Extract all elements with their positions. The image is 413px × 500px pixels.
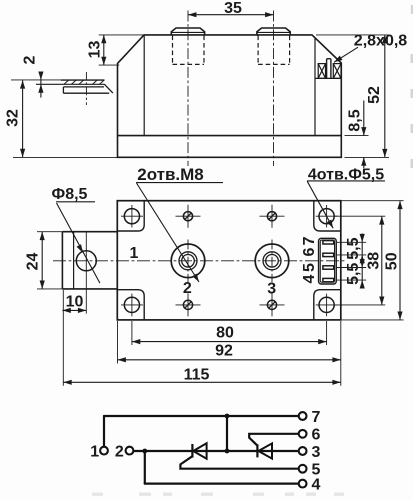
svg-text:2отв.М8: 2отв.М8 — [137, 165, 204, 184]
scan ghost marks right edge — [411, 5, 413, 168]
pin 6 — [323, 253, 334, 256]
tab hole centerline — [85, 72, 87, 105]
left flat tab top view — [62, 232, 117, 289]
dim 50 — [341, 201, 404, 320]
svg-text:3: 3 — [312, 444, 321, 461]
terminal 4 circle — [299, 480, 307, 488]
wire: gate lead VS1 to terminal 5 — [180, 456, 298, 469]
hidden M8 hole 2 (dashed) — [258, 36, 290, 65]
wire: node A riser — [226, 416, 228, 451]
mounting hole BL — [121, 294, 143, 317]
centerline terminal 2 — [273, 11, 275, 167]
terminal 6 circle — [299, 430, 307, 438]
dim 80 — [132, 321, 327, 345]
scan ghost marks bottom — [92, 493, 344, 496]
control connector block — [319, 238, 337, 284]
svg-text:92: 92 — [215, 343, 233, 360]
junction node A bottom — [225, 449, 230, 454]
terminal 5 circle — [299, 465, 307, 473]
dim 8,5 — [345, 101, 369, 169]
pin 5 — [323, 266, 334, 269]
tab bend diagonal — [104, 84, 113, 93]
thyristor VS1 cathode bar — [191, 444, 193, 458]
svg-text:7: 7 — [312, 409, 321, 426]
svg-text:5,5: 5,5 — [345, 237, 362, 259]
svg-text:2: 2 — [115, 443, 124, 460]
corner tab bottom-left — [117, 290, 144, 320]
svg-text:Ф8,5: Ф8,5 — [52, 186, 88, 203]
svg-text:2: 2 — [183, 280, 192, 297]
pin 7 — [323, 241, 334, 244]
svg-text:3: 3 — [267, 281, 276, 298]
M8 terminal hole 2 — [171, 240, 205, 283]
dim 13 — [99, 35, 144, 65]
module body outline side view — [118, 35, 342, 157]
wire: bottom bus to terminal 4 — [145, 483, 299, 485]
gate pin hole D — [260, 293, 285, 316]
dim 2 — [40, 72, 42, 98]
wire: terminal 1 riser — [103, 416, 105, 447]
terminal 1 circle — [100, 447, 108, 455]
svg-text:32: 32 — [5, 109, 22, 127]
svg-text:5: 5 — [301, 263, 318, 272]
fast-on connector 2.8x0.8 — [318, 59, 341, 79]
terminal bump 1 — [171, 28, 204, 35]
svg-text:1: 1 — [130, 245, 139, 262]
corner tab bottom-right — [314, 290, 341, 320]
mounting hole TL — [121, 205, 143, 228]
dim 32 — [13, 80, 118, 157]
dim 52 — [316, 35, 389, 157]
thyristor VS2 cathode bar — [256, 444, 258, 457]
body rectangle — [117, 201, 340, 320]
dim 115 — [63, 290, 341, 386]
svg-text:35: 35 — [224, 0, 242, 17]
wire: drop from 2 to bottom bus — [144, 451, 146, 484]
junction node A top — [225, 414, 230, 419]
hole vertical centerline / ext — [85, 232, 87, 314]
terminal 7 circle — [299, 412, 307, 420]
svg-text:80: 80 — [216, 324, 234, 341]
thyristor VS1 triangle — [193, 443, 206, 459]
terminal 3 circle — [299, 447, 307, 455]
svg-text:38: 38 — [366, 252, 383, 270]
gate pin hole A — [176, 205, 201, 228]
dim 35 — [188, 14, 274, 16]
svg-text:1: 1 — [90, 443, 99, 460]
centerline terminal 1 — [187, 11, 189, 167]
svg-text:115: 115 — [184, 366, 210, 383]
svg-text:24: 24 — [25, 253, 42, 271]
junction at terminal 2 branch — [142, 449, 147, 454]
dim 38 — [334, 216, 386, 305]
mounting hole TR — [316, 205, 338, 228]
hidden M8 hole 1 (dashed) — [173, 36, 290, 65]
thyristor VS2 triangle — [258, 443, 272, 458]
svg-text:7: 7 — [301, 236, 318, 245]
svg-text:52: 52 — [366, 86, 383, 104]
svg-text:4: 4 — [312, 477, 321, 494]
terminal 2 circle — [126, 447, 134, 455]
connector platform — [315, 77, 341, 79]
serration hatches — [64, 80, 104, 84]
svg-text:5,5: 5,5 — [345, 263, 362, 285]
gate pin hole B — [260, 205, 285, 228]
recess wall right — [314, 38, 316, 135]
tab holder box — [63, 87, 109, 93]
base plate line — [118, 135, 342, 137]
dim 5,5 pins — [337, 234, 367, 289]
M8 terminal hole 3 — [255, 240, 289, 283]
pin 4 — [323, 278, 334, 281]
svg-text:13: 13 — [87, 41, 104, 59]
corner tab top-right — [314, 201, 341, 231]
mounting hole BR — [316, 294, 338, 317]
wire: top bus from terminal 1 to terminal 7 — [104, 415, 299, 417]
wire: gate lead VS2 to terminal 6 — [249, 434, 299, 446]
svg-text:2: 2 — [22, 55, 39, 64]
corner tab top-left — [117, 201, 144, 231]
label 2,8x0,8 with leader — [334, 47, 358, 62]
inner vertical left wall — [143, 35, 145, 136]
svg-text:6: 6 — [301, 247, 318, 256]
wire: middle bus 2 to 3 — [134, 450, 299, 452]
main horizontal centerline — [53, 260, 345, 262]
gate pin hole C — [176, 293, 201, 316]
dim 92 — [118, 321, 341, 364]
svg-text:8,5: 8,5 — [347, 109, 364, 131]
svg-text:10: 10 — [66, 293, 84, 310]
dim 24 — [37, 232, 62, 289]
terminal bump 2 — [257, 28, 290, 35]
left terminal tab side view — [11, 72, 113, 105]
hole 8.5 — [76, 251, 96, 271]
svg-text:4: 4 — [301, 274, 318, 283]
svg-text:6: 6 — [312, 427, 321, 444]
dim 10 — [62, 309, 86, 311]
svg-text:50: 50 — [384, 252, 401, 270]
